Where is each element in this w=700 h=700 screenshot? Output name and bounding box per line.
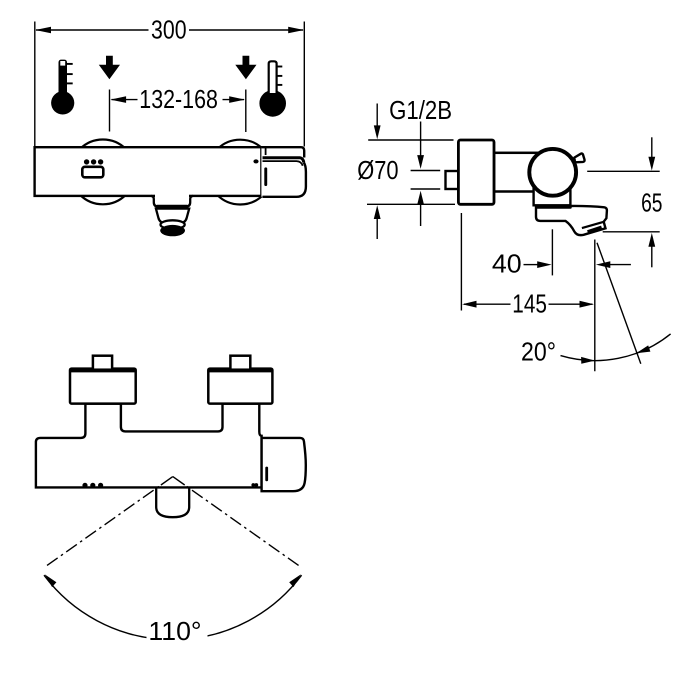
svg-text:132-168: 132-168 [139,84,218,114]
svg-text:145: 145 [512,288,547,318]
svg-text:65: 65 [641,187,662,217]
svg-text:40: 40 [492,249,522,279]
svg-text:110°: 110° [148,616,201,646]
svg-text:Ø70: Ø70 [357,155,398,185]
svg-text:300: 300 [151,14,187,44]
svg-text:20°: 20° [521,337,556,367]
svg-text:G1/2B: G1/2B [389,95,452,125]
